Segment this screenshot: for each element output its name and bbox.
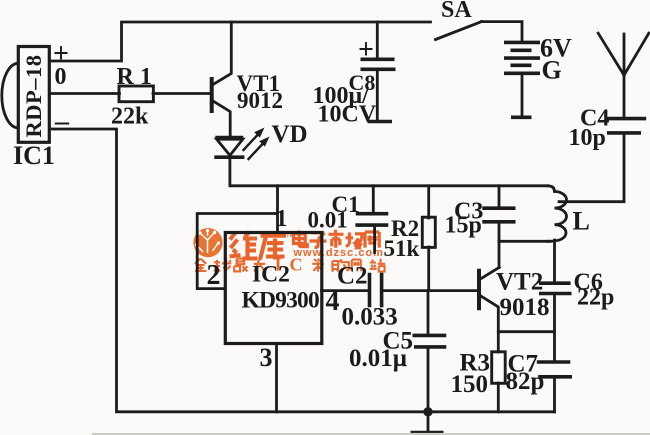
svg-text:22p: 22p [577,285,614,311]
svg-text:R 1: R 1 [117,64,152,90]
svg-text:22k: 22k [111,104,149,130]
svg-text:–: – [54,106,70,137]
svg-text:IC2: IC2 [252,262,290,288]
svg-text:2: 2 [207,260,221,291]
svg-text:SA: SA [441,0,472,23]
svg-text:3: 3 [260,343,273,372]
svg-text:51k: 51k [384,236,420,261]
svg-text:VD: VD [272,121,308,148]
svg-text:9012: 9012 [237,88,283,113]
svg-text:1: 1 [276,206,288,232]
svg-text:9018: 9018 [500,294,550,321]
svg-text:C2: C2 [337,263,368,290]
svg-text:10CV: 10CV [318,102,377,128]
svg-text:0.01μ: 0.01μ [349,345,407,372]
svg-text:10p: 10p [569,125,606,151]
svg-text:L: L [573,207,590,236]
svg-text:+: + [358,35,374,66]
svg-text:15p: 15p [445,213,482,239]
svg-text:C: C [290,255,303,275]
svg-text:VT2: VT2 [496,269,543,296]
svg-text:4: 4 [326,286,340,317]
svg-text:0: 0 [55,64,67,90]
svg-text:G: G [542,56,562,85]
svg-text:KD9300: KD9300 [242,288,320,314]
svg-text:82p: 82p [506,368,545,395]
svg-text:0.033: 0.033 [342,304,398,331]
svg-text:www.dzsc.com: www.dzsc.com [293,247,384,259]
svg-text:150: 150 [451,371,489,398]
svg-text:0.01: 0.01 [308,208,348,233]
svg-text:RDP–18: RDP–18 [21,55,46,138]
svg-text:IC1: IC1 [13,141,55,170]
